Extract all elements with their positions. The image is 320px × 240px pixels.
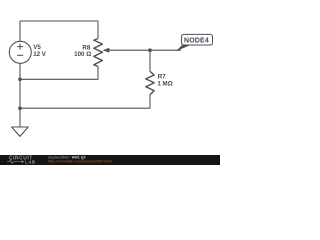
ground (12, 127, 29, 136)
watermark bar (0, 155, 220, 165)
rheostat R8 (74, 39, 109, 67)
wire (20, 67, 98, 80)
voltage source V5 (9, 41, 47, 63)
watermark logo CircuitLab (7, 156, 36, 165)
watermark title text (48, 155, 86, 159)
wire (20, 95, 150, 109)
resistor R7 (146, 71, 173, 94)
svg-text:NODE4: NODE4 (184, 38, 209, 45)
svg-text:1 MΩ: 1 MΩ (157, 81, 172, 88)
node junction left-mid (18, 78, 22, 82)
svg-text:LAB: LAB (25, 160, 36, 165)
watermark url text (48, 159, 112, 164)
wire (149, 50, 151, 71)
wire (19, 63, 21, 127)
svg-text:100 Ω: 100 Ω (74, 51, 91, 58)
node flag NODE4 (176, 34, 213, 51)
svg-text:V5: V5 (33, 44, 41, 51)
node junction left-bottom (18, 106, 22, 110)
svg-text:12 V: 12 V (33, 51, 47, 58)
svg-text:http://circuitlab.com/c/pdps29: http://circuitlab.com/c/pdps29879s62 (48, 159, 112, 164)
node junction wiper/R7 (148, 48, 152, 52)
wire (20, 21, 98, 42)
wire (109, 49, 182, 51)
